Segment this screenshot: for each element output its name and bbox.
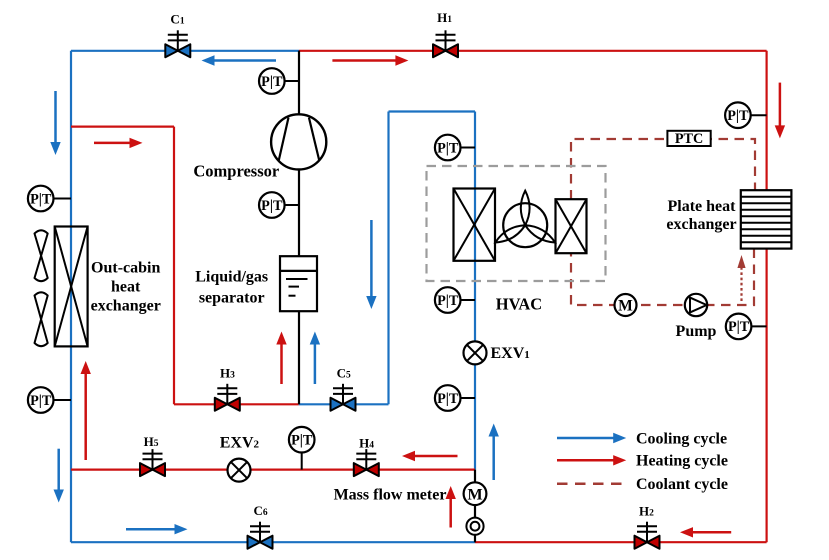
wire red top header (heating) (299, 50, 767, 52)
mass flow meter double circle (466, 518, 483, 535)
flow arrow red up into separator line (276, 332, 286, 385)
svg-text:P|T: P|T (437, 140, 459, 156)
liquid/gas separator (280, 256, 317, 311)
flow arrow red top right-pointing (332, 55, 408, 65)
flow arrow red branch right-pointing (94, 138, 143, 148)
flow arrow blue down beside riser (366, 220, 376, 309)
out-cabin heat exchanger (55, 227, 88, 347)
wire red branch top from left line (71, 125, 174, 127)
PTC heater box (667, 131, 710, 147)
coolant motor M (615, 294, 637, 316)
valve H4 (354, 449, 379, 476)
HVAC dashed enclosure box (427, 166, 606, 281)
svg-text:EXV1: EXV1 (491, 345, 530, 362)
flow arrow blue up HVAC line (489, 424, 499, 481)
legend coolant dashed line (557, 482, 625, 485)
svg-text:P|T: P|T (261, 198, 283, 214)
sensor PT left upper (28, 186, 71, 212)
svg-text:P|T: P|T (261, 74, 283, 90)
svg-text:H1: H1 (437, 10, 452, 25)
valve H3 (215, 384, 240, 411)
legend coolant label (636, 476, 728, 493)
valve H1 (433, 30, 458, 57)
svg-text:Compressor: Compressor (193, 162, 279, 181)
expansion valve EXV2 (228, 459, 251, 482)
flow arrow red up right of meter (446, 486, 456, 528)
liquid/gas separator label (195, 269, 268, 307)
wire blue jog to HVAC (389, 110, 476, 112)
wire blue left vertical (70, 51, 72, 542)
pump label (676, 323, 717, 340)
flow arrow red left above H2 (680, 527, 731, 537)
out-cabin fan lower (35, 292, 48, 346)
wire coolant dashed heater-PTC-plateHX top loop (571, 139, 755, 200)
svg-text:Coolant cycle: Coolant cycle (636, 476, 728, 493)
flow arrow red down top right (775, 83, 785, 139)
EXV2 label (220, 434, 260, 451)
svg-text:Liquid/gas: Liquid/gas (195, 269, 268, 286)
valve C1 label (170, 11, 184, 26)
wire red branch vertical (173, 127, 175, 405)
wire blue top header (cooling) (71, 50, 299, 52)
svg-text:Cooling cycle: Cooling cycle (636, 430, 727, 447)
flow arrow red up below out-cabin HX (81, 361, 91, 460)
valve H2 (635, 522, 660, 549)
svg-text:exchanger: exchanger (91, 298, 161, 315)
wire red H3 horizontal (174, 403, 299, 405)
sensor PT above EXV2 line (289, 427, 315, 470)
legend cooling arrow (557, 433, 626, 443)
svg-text:C1: C1 (170, 11, 184, 26)
sensor PT HVAC top (435, 135, 475, 161)
mass flow meter label (334, 486, 447, 503)
wire blue riser from C5 line (387, 112, 389, 405)
svg-text:H2: H2 (639, 504, 654, 519)
svg-text:P|T: P|T (30, 393, 52, 409)
wire black mass-flow-meter drop (474, 470, 476, 543)
svg-text:Pump: Pump (676, 323, 717, 340)
HVAC evaporator (454, 189, 496, 261)
svg-text:heat: heat (111, 279, 141, 296)
valve H4 label (359, 436, 374, 451)
HVAC blower fan (493, 191, 557, 248)
wire blue separator-to-C5 horizontal (299, 403, 389, 405)
valve C6 label (254, 503, 268, 518)
out-cabin heat exchanger label (91, 260, 161, 315)
sensor PT left lower (28, 387, 71, 413)
svg-text:P|T: P|T (728, 319, 750, 335)
svg-text:PTC: PTC (675, 131, 703, 147)
legend cooling label (636, 430, 727, 447)
valve H1 label (437, 10, 452, 25)
svg-text:EXV2: EXV2 (220, 434, 260, 451)
mass flow meter M (464, 482, 487, 505)
valve C5 label (337, 366, 351, 381)
HVAC label (496, 295, 542, 314)
svg-text:P|T: P|T (437, 391, 459, 407)
wire red bottom horizontal (475, 541, 767, 543)
svg-text:Plate heat: Plate heat (668, 198, 737, 215)
coolant dotted flow arrow into plate HX (737, 255, 745, 301)
compressor label (193, 162, 279, 181)
sensor PT compressor suction (259, 192, 299, 218)
compressor (271, 114, 326, 169)
flow arrow blue up into separator line (310, 332, 320, 385)
plate heat exchanger label (666, 198, 736, 233)
EXV1 label (491, 345, 530, 362)
svg-text:P|T: P|T (727, 108, 749, 124)
plate heat exchanger (741, 190, 792, 248)
wire red H5-H4 horizontal (71, 469, 475, 471)
valve C1 (165, 30, 190, 57)
svg-text:P|T: P|T (30, 191, 52, 207)
svg-text:exchanger: exchanger (666, 216, 736, 233)
flow arrow blue down lower left (54, 449, 64, 503)
legend heating label (636, 453, 728, 470)
valve H5 (140, 449, 165, 476)
sensor PT HVAC lower (435, 385, 475, 411)
valve H2 label (639, 504, 654, 519)
svg-text:H5: H5 (144, 434, 159, 449)
valve C6 (248, 522, 273, 549)
HVAC heater core (556, 199, 587, 253)
valve C5 (331, 384, 356, 411)
sensor PT right top (725, 102, 766, 128)
flow arrow red left above H4 (402, 451, 458, 461)
svg-text:P|T: P|T (437, 293, 459, 309)
valve H3 label (220, 366, 235, 381)
sensor PT right middle (726, 314, 767, 340)
svg-text:separator: separator (199, 290, 265, 307)
wire coolant dashed plateHX-pump-heater bottom loop (571, 249, 754, 306)
wire black compressor line (298, 51, 300, 405)
sensor PT compressor discharge (259, 68, 299, 94)
expansion valve EXV1 (464, 341, 487, 364)
svg-text:C6: C6 (254, 503, 268, 518)
sensor PT HVAC middle (435, 287, 475, 313)
wire red right vertical (765, 51, 767, 542)
wire blue bottom horizontal (71, 541, 475, 543)
wire blue HVAC vertical (474, 112, 476, 470)
svg-text:H3: H3 (220, 366, 235, 381)
pump P1 (685, 294, 707, 316)
out-cabin fan upper (35, 230, 48, 281)
valve H5 label (144, 434, 159, 449)
legend heating arrow (557, 455, 626, 465)
svg-text:HVAC: HVAC (496, 295, 542, 314)
svg-text:P|T: P|T (291, 433, 313, 449)
svg-text:Heating cycle: Heating cycle (636, 453, 728, 470)
svg-text:C5: C5 (337, 366, 351, 381)
svg-text:Mass flow meter: Mass flow meter (334, 486, 447, 503)
flow arrow blue bottom right-pointing (126, 524, 188, 534)
flow arrow blue top left (202, 55, 277, 65)
svg-text:Out-cabin: Out-cabin (91, 260, 160, 277)
svg-text:M: M (618, 298, 633, 315)
svg-text:H4: H4 (359, 436, 374, 451)
flow arrow blue down left side (50, 91, 60, 155)
svg-text:M: M (467, 487, 482, 504)
